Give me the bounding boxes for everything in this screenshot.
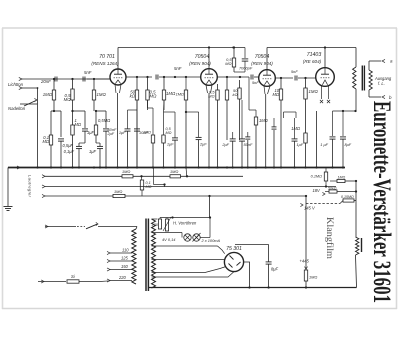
capacitor 1uF clusterC2	[96, 143, 103, 168]
svg-text:7000pF: 7000pF	[239, 66, 253, 71]
svg-text:1MΩ: 1MΩ	[166, 91, 176, 96]
capacitor 20nF	[40, 77, 59, 85]
wire input to C1	[0, 0, 1, 1]
svg-text:50kΩ: 50kΩ	[328, 187, 337, 191]
svg-text:110: 110	[122, 248, 129, 253]
heater lamp return	[200, 218, 210, 238]
mains switch	[45, 222, 137, 228]
svg-text:5nF: 5nF	[291, 69, 298, 74]
wire V1 cathode drop	[117, 93, 119, 168]
label 0.1M mid8	[146, 181, 152, 189]
label V2 name	[189, 61, 211, 66]
wire fuse to tap	[79, 281, 100, 283]
resistor 0.1M mid8	[140, 176, 143, 196]
label 0.1M right	[311, 175, 322, 179]
capacitor 7000pF	[234, 48, 248, 73]
svg-text:MΩ: MΩ	[42, 139, 49, 144]
label 1M stage1b	[166, 91, 176, 96]
label Lautregler	[28, 175, 33, 198]
wire V4 top	[324, 48, 326, 68]
svg-text:1MΩ: 1MΩ	[176, 92, 184, 97]
svg-text:1MΩ: 1MΩ	[309, 275, 317, 280]
svg-text:2 x 100mA: 2 x 100mA	[201, 238, 221, 243]
wire v 247.8	[245, 132, 250, 168]
page edge bottom	[2, 308, 397, 310]
label 125	[121, 256, 129, 261]
resistor 10M V3	[279, 78, 282, 168]
svg-text:1MΩ: 1MΩ	[97, 92, 107, 97]
wire V3 top	[266, 48, 268, 70]
svg-text:220: 220	[118, 275, 127, 280]
svg-text:1 μF: 1 μF	[320, 142, 328, 147]
svg-text:1MΩ: 1MΩ	[259, 118, 268, 123]
page edge top	[2, 27, 397, 29]
svg-text:kΩ: kΩ	[130, 94, 136, 99]
svg-text:a: a	[390, 59, 393, 64]
resistor 50k rowB	[325, 190, 357, 193]
capacitor 8uF V4	[340, 111, 346, 168]
svg-text:1μF: 1μF	[297, 142, 304, 147]
PSU top link	[235, 244, 269, 246]
svg-text:0,5μF: 0,5μF	[63, 143, 74, 148]
label 1M V1	[97, 92, 107, 97]
capacitor 1uF clusterB	[82, 111, 88, 143]
label 50k stage2b	[232, 88, 238, 97]
svg-text:150: 150	[121, 264, 129, 269]
heater line 246	[152, 246, 225, 254]
resistor 1M stage1b	[162, 77, 165, 110]
svg-text:4V 0,14: 4V 0,14	[162, 237, 176, 242]
resistor 50k stage1	[135, 76, 152, 168]
wire switch drop	[37, 88, 39, 168]
svg-text:2μF: 2μF	[221, 142, 229, 147]
field choke	[356, 237, 362, 288]
svg-text:Si: Si	[71, 274, 75, 279]
cluster C bracket	[94, 110, 106, 112]
wire V2 top	[208, 48, 210, 69]
label Ausgang	[374, 76, 392, 86]
tap arrow 150	[107, 268, 132, 271]
label 0.5M V2	[208, 90, 215, 99]
resistor 1M input	[52, 78, 55, 111]
transformer T1 primary	[132, 229, 136, 284]
capacitor 1uF V4	[330, 111, 336, 168]
label 230	[151, 223, 159, 227]
terminal b	[382, 95, 392, 100]
svg-text:MΩ: MΩ	[64, 97, 72, 102]
cluster B bracket	[71, 110, 85, 112]
wire V3 pins	[264, 86, 270, 168]
svg-text:5nF: 5nF	[252, 80, 259, 85]
svg-text:1μF: 1μF	[119, 130, 126, 135]
svg-text:kΩ: kΩ	[232, 92, 237, 97]
B+ bus	[149, 286, 357, 288]
label 0.5M mid4	[166, 127, 172, 135]
resistor 0.1M clusterA	[49, 135, 52, 168]
rect cathode out	[244, 262, 250, 287]
svg-text:+445: +445	[300, 259, 310, 264]
svg-text:230: 230	[151, 223, 159, 227]
label 2uF mid7	[199, 142, 207, 147]
label 10M V3	[272, 88, 279, 97]
resistor 50k V2b	[225, 77, 228, 140]
svg-text:70504: 70504	[195, 54, 210, 60]
resistor 1M rowA	[330, 179, 357, 182]
transformer OT core	[362, 66, 364, 91]
switch S1 Nadelton	[20, 87, 38, 106]
rect anode line	[152, 259, 225, 261]
rect anode line2	[152, 267, 227, 273]
label 1uF clusterB	[87, 130, 95, 135]
label 1uF V4	[320, 142, 328, 147]
svg-text:18V: 18V	[313, 188, 322, 193]
resistor 1M V4b	[304, 133, 307, 168]
title Euronette	[368, 101, 395, 303]
svg-text:1MΩ: 1MΩ	[114, 189, 122, 194]
bracket stage3	[284, 112, 297, 118]
svg-text:b: b	[389, 95, 392, 100]
heater resistor 230	[158, 218, 161, 230]
label PSU bleed	[309, 275, 317, 280]
label 1uF stage3	[297, 142, 304, 147]
capacitor 1uF mid1	[125, 110, 138, 168]
heater top line	[152, 218, 158, 220]
resistor 0.5M decoupler	[232, 46, 235, 72]
wire plus drop	[305, 196, 307, 270]
svg-text:(REN 904): (REN 904)	[251, 61, 273, 66]
capacitor 5nF coupling2	[251, 75, 259, 86]
resistor 0.5M mid4	[162, 100, 165, 168]
wire V1 top	[117, 48, 119, 70]
tube V1 70701	[110, 69, 126, 85]
label 18V	[313, 188, 326, 196]
label V1 name	[91, 61, 119, 66]
capacitor 2uF mid7	[196, 112, 202, 168]
svg-text:0,1MΩ: 0,1MΩ	[311, 175, 322, 179]
label 7000pF	[239, 66, 253, 71]
label V5 type	[226, 246, 242, 252]
label 8uF PSU	[271, 267, 279, 272]
resistor 50k stage2b	[238, 77, 241, 140]
tap link	[154, 168, 166, 188]
capacitor 0.1uF clusterB2	[76, 143, 85, 168]
label 1M gridV4	[309, 89, 319, 94]
svg-text:1MΩ: 1MΩ	[338, 176, 346, 180]
transformer T1 core	[146, 219, 148, 292]
label 10nF mid2	[139, 130, 148, 135]
input terminal Lichtton	[19, 77, 110, 80]
resistor PSU bleed	[304, 270, 307, 287]
svg-text:MΩ: MΩ	[166, 131, 172, 135]
svg-text:0,15MΩ: 0,15MΩ	[341, 195, 354, 199]
label 1M rowA	[338, 176, 346, 180]
wire OT primary bottom	[355, 89, 357, 111]
capacitor 5nF coupling1	[156, 66, 182, 80]
tap arrow 125	[107, 259, 132, 262]
resistor 0.5M input	[71, 78, 74, 111]
label Nadelton	[8, 106, 26, 111]
wire switch to primary	[136, 227, 137, 230]
anode rail 2	[267, 46, 356, 48]
label 0.15M rowC	[341, 195, 354, 199]
terminal a	[382, 59, 393, 64]
label 50k stage1	[130, 90, 136, 99]
tube V4 71403	[316, 68, 335, 87]
label 2uF clusterC	[107, 127, 117, 136]
svg-text:5nF: 5nF	[84, 70, 92, 75]
resistor 1M row3	[113, 189, 125, 198]
terminal row1	[42, 175, 243, 178]
label 1uF clusterC2	[89, 149, 97, 154]
label 8uF V4	[345, 142, 352, 147]
svg-text:5nF: 5nF	[174, 66, 182, 71]
label 50nF stage2	[244, 142, 253, 147]
resistor 1M clusterB	[71, 111, 74, 168]
transformer T1 secondary	[152, 219, 156, 288]
svg-text:f. L.: f. L.	[378, 81, 385, 86]
svg-text:50nF: 50nF	[244, 142, 253, 147]
svg-text:Euronette-Verstärker 31601: Euronette-Verstärker 31601	[368, 101, 395, 303]
svg-text:1MΩ: 1MΩ	[291, 126, 300, 131]
label 1M clusterB	[75, 118, 82, 127]
capacitor 2uF clusterC	[103, 111, 109, 168]
capacitor 50nF stage2	[239, 100, 245, 168]
resistor 1M mid6	[184, 76, 187, 176]
label 0.5uF clusterA	[63, 143, 74, 148]
rect center tap	[152, 272, 235, 277]
capacitor 0.5uF clusterA	[58, 139, 64, 168]
label 1M V4b	[291, 126, 300, 131]
transformer OT primary	[353, 67, 356, 89]
svg-text:MΩ: MΩ	[225, 61, 231, 66]
resistor 0.15M rowC	[306, 181, 356, 237]
svg-text:1MΩ: 1MΩ	[143, 131, 151, 135]
resistor 1M row1b	[170, 169, 181, 178]
label Lichtton	[8, 82, 24, 87]
svg-text:Klangfilm: Klangfilm	[324, 217, 335, 260]
capacitor 1uF stage3	[292, 118, 298, 168]
label 1M mid3	[143, 131, 151, 135]
svg-text:2μF: 2μF	[199, 142, 207, 147]
label 0.1uF clusterB2	[64, 149, 75, 154]
capacitor 1uF mid5	[172, 112, 178, 168]
label 1M mid6	[176, 92, 184, 97]
bus dots	[36, 166, 344, 168]
svg-text:MΩ: MΩ	[75, 122, 82, 127]
svg-text:8μF: 8μF	[271, 267, 279, 272]
anode rail	[118, 46, 245, 48]
capacitor 8uF PSU	[266, 245, 272, 288]
cluster A bracket	[51, 110, 61, 137]
capacitor 10nF mid2	[134, 100, 140, 168]
page edge right	[396, 28, 398, 309]
resistor 1M V1 right	[87, 78, 96, 111]
heater rheostat	[163, 217, 171, 231]
resistor 1M row1a	[122, 169, 133, 178]
svg-text:0,5MΩ: 0,5MΩ	[98, 118, 110, 123]
label V4 name	[303, 59, 322, 64]
wire coupling3 right	[298, 77, 317, 79]
svg-text:75 301: 75 301	[226, 246, 242, 252]
bracket V4 caps	[333, 110, 357, 112]
label V2 type	[195, 54, 210, 60]
wire V1 out	[126, 76, 152, 78]
ground bus	[8, 167, 345, 169]
page edge left	[2, 28, 4, 309]
wire OT top	[355, 48, 357, 68]
label 2x100	[201, 238, 221, 243]
label V3 name	[251, 61, 273, 66]
svg-text:(RE 604): (RE 604)	[303, 59, 322, 64]
resistor 1M gridV4	[304, 78, 307, 133]
label plus445	[300, 259, 310, 270]
label 1uF mid1	[119, 130, 126, 135]
input terminal 2	[19, 86, 38, 89]
lamp La2 rheostat	[193, 233, 201, 242]
label 0.5M clusterC	[98, 118, 110, 123]
resistor 0.5M clusterC	[94, 111, 97, 143]
resistor 1M mid3	[148, 100, 155, 168]
svg-text:MΩ: MΩ	[208, 94, 214, 99]
svg-text:1MΩ: 1MΩ	[43, 92, 53, 97]
label H Vorroehren	[173, 221, 197, 226]
tap arrow 110	[107, 251, 132, 254]
wire V2 pins	[206, 85, 212, 168]
label 4V	[162, 237, 176, 242]
svg-text:1MΩ: 1MΩ	[122, 169, 130, 174]
svg-text:20nF: 20nF	[40, 79, 51, 84]
bus arrow	[17, 166, 20, 169]
x marks V4 filament	[320, 100, 330, 103]
lamp La1	[184, 234, 191, 241]
ground symbol	[4, 207, 13, 211]
label 0.5M stage1	[150, 90, 158, 99]
title Klangfilm	[324, 217, 335, 260]
label 0.1M clusterA	[42, 135, 49, 144]
svg-text:70 701: 70 701	[99, 54, 115, 60]
resistor 1M gridV3	[249, 77, 258, 168]
svg-text:8μF: 8μF	[345, 142, 352, 147]
terminal row3	[42, 194, 306, 197]
wire coupling1 right	[159, 76, 201, 78]
wire v 274	[272, 118, 277, 168]
tube V2 70504	[201, 69, 218, 86]
label 110	[122, 248, 129, 253]
svg-text:MΩ: MΩ	[150, 94, 158, 99]
resistor 0.5M stage1	[146, 76, 149, 110]
transformer OT secondary	[369, 70, 372, 90]
svg-text:71403: 71403	[307, 52, 322, 58]
ground lead	[7, 168, 9, 207]
capacitor 5nF coupling3	[291, 69, 298, 81]
label 1M input	[43, 92, 53, 97]
svg-text:2μF: 2μF	[107, 131, 115, 136]
label V1 type	[99, 54, 115, 60]
wire coupling2 right	[254, 76, 259, 78]
svg-text:(RENS 1264): (RENS 1264)	[91, 61, 119, 66]
heater bus top	[160, 216, 211, 218]
wire grid V1	[87, 78, 110, 80]
label 145V	[300, 195, 316, 211]
wire V1 pins	[115, 85, 121, 94]
wire V4 pins	[322, 85, 329, 99]
label 50k rowB	[328, 187, 337, 191]
svg-text:(REN 904): (REN 904)	[189, 61, 211, 66]
resistor 0.1M right	[324, 168, 327, 187]
capacitor 5nF input	[83, 70, 92, 82]
rectifier V5	[224, 252, 243, 271]
label V4 type	[307, 52, 322, 58]
svg-text:Lichtton: Lichtton	[8, 82, 24, 87]
bracket mid6	[185, 111, 199, 113]
label 150	[121, 264, 129, 269]
svg-text:H. Vorröhren: H. Vorröhren	[173, 221, 197, 226]
svg-text:Lautregler: Lautregler	[28, 175, 33, 198]
fuse Si	[67, 274, 79, 283]
wire heater drop	[208, 195, 210, 218]
wire OT sec bottom	[369, 90, 381, 97]
label 2uF stage2	[221, 142, 229, 147]
svg-text:1μF: 1μF	[89, 149, 97, 154]
capacitor 2uF stage2	[227, 132, 240, 168]
heater mid line	[152, 233, 183, 238]
wire OT sec top	[369, 61, 381, 70]
label decoupler	[225, 57, 232, 66]
wire V2 out	[217, 76, 249, 78]
svg-text:1MΩ: 1MΩ	[309, 89, 319, 94]
tap arrow 220	[100, 279, 132, 282]
wire V3 out	[275, 77, 293, 79]
svg-text:1MΩ: 1MΩ	[170, 169, 178, 174]
label 1M gridV3	[259, 118, 268, 123]
svg-text:1μF: 1μF	[87, 130, 95, 135]
svg-text:0,1μF: 0,1μF	[64, 149, 75, 154]
bracket mid4	[164, 111, 176, 113]
mains terminal	[38, 280, 66, 283]
label 0.5M input	[64, 93, 72, 102]
wire v 316.5	[316, 111, 318, 168]
terminal row2	[42, 185, 336, 188]
svg-text:MΩ: MΩ	[272, 92, 279, 97]
svg-text:1μF: 1μF	[167, 142, 174, 147]
tube V3 70504	[259, 70, 276, 87]
label 1uF mid5	[167, 142, 174, 147]
svg-text:Nadelton: Nadelton	[8, 106, 26, 111]
resistor 0.5M V2	[216, 81, 219, 168]
label V3 type	[255, 54, 270, 60]
svg-text:125: 125	[121, 256, 129, 261]
label 220	[118, 275, 127, 280]
